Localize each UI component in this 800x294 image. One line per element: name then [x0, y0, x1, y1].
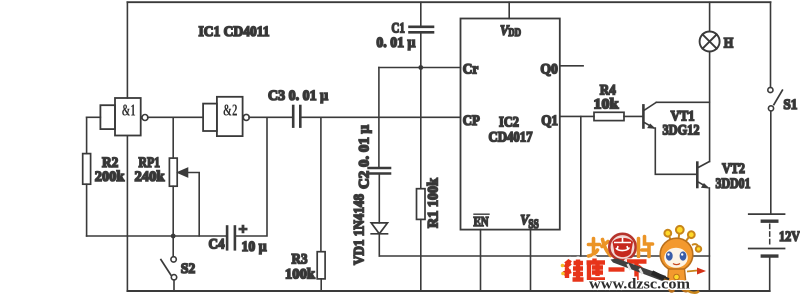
- wire C2 to VD1: [378, 174, 380, 223]
- wire EN lead to bottom border: [480, 230, 482, 291]
- wire R1 bottom lead to bottom border: [420, 219, 422, 291]
- wire VDD lead: [508, 2, 510, 18]
- wire lamp bottom lead to VT2 collector: [709, 52, 711, 162]
- resistor R1: [417, 189, 426, 220]
- wire RP1 bottom lead: [172, 186, 174, 236]
- wire S2 upper lead: [172, 236, 174, 257]
- svg-text:DD: DD: [508, 25, 521, 39]
- svg-text:R3: R3: [292, 252, 308, 268]
- watermark yellow dots: [561, 264, 565, 268]
- watermark mascot antennae: [664, 226, 701, 252]
- wire R4 to VT1 base: [624, 115, 642, 117]
- wire bottom border: [127, 290, 769, 292]
- ground rail (VD1 to VT2 emitter): [379, 255, 709, 257]
- wire feedback rail: [87, 235, 227, 237]
- svg-text:0. 01 μ: 0. 01 μ: [376, 35, 415, 51]
- svg-text:100k: 100k: [285, 266, 316, 282]
- watermark mascot head: [660, 238, 693, 271]
- wire R2 bottom lead: [86, 184, 88, 236]
- wire R2 top lead: [86, 117, 88, 153]
- resistor R2: [83, 154, 91, 185]
- svg-text:Q1: Q1: [541, 113, 558, 129]
- wire R3 top lead: [320, 117, 322, 251]
- svg-text:CP: CP: [463, 113, 480, 129]
- wire RP1 top lead: [172, 117, 174, 158]
- watermark mascot pen: [611, 259, 675, 285]
- svg-text:200k: 200k: [95, 169, 125, 185]
- wire VT1 emitter down and to VT2 base: [655, 128, 697, 174]
- wire U1a input left: [87, 116, 101, 118]
- junction dot C1/Cr: [418, 65, 423, 70]
- watermark mascot body: [667, 269, 686, 286]
- svg-text:240k: 240k: [135, 169, 166, 185]
- svg-text:EN: EN: [474, 215, 489, 230]
- watermark dzsc.com: [561, 226, 706, 293]
- svg-text:C3 0. 01 μ: C3 0. 01 μ: [268, 88, 328, 104]
- svg-text:3DG12: 3DG12: [663, 123, 700, 139]
- resistor R4: [594, 112, 624, 120]
- transistor VT1 (3DG12): [643, 102, 656, 129]
- svg-text:+: +: [239, 222, 248, 238]
- svg-text:S1: S1: [783, 97, 797, 113]
- wire C3 to IC2 CP: [300, 116, 460, 118]
- wire C1 bottom lead: [420, 32, 422, 67]
- svg-text:IC1 CD4011: IC1 CD4011: [199, 24, 270, 40]
- wire battery bottom lead: [769, 256, 771, 291]
- NAND gate U1b (&2): [203, 97, 249, 136]
- svg-text:&2: &2: [223, 100, 238, 119]
- svg-text:H: H: [724, 36, 734, 52]
- svg-text:C2 0. 01 μ: C2 0. 01 μ: [357, 125, 373, 189]
- switch S2: [161, 257, 177, 280]
- svg-text:Q0: Q0: [540, 62, 558, 78]
- watermark mascot hand dart: [687, 268, 706, 275]
- wire U1b output to C3: [249, 116, 293, 118]
- svg-text:&1: &1: [122, 100, 136, 119]
- svg-text:VT2: VT2: [722, 161, 745, 177]
- wire C4 right lead up to U1b output: [235, 117, 267, 236]
- wire VT1 collector to lamp line: [656, 101, 709, 103]
- watermark char 找 (orange): [589, 239, 611, 257]
- watermark red text 维库一下: [564, 259, 647, 282]
- switch S1: [768, 87, 783, 111]
- svg-text:S2: S2: [181, 261, 196, 277]
- wire VSS lead to bottom border: [530, 230, 532, 291]
- wire left border lower (gate U1a bottom to bottom border): [126, 137, 128, 292]
- svg-text:12V: 12V: [779, 229, 800, 245]
- watermark mascot legs: [669, 287, 688, 291]
- resistor R3: [317, 252, 325, 279]
- svg-text:10 μ: 10 μ: [242, 239, 267, 255]
- capacitor C1: [410, 27, 434, 33]
- diode VD1: [371, 223, 387, 234]
- svg-text:C4: C4: [209, 237, 225, 253]
- IC U2 (IC2 CD4017) box: [461, 19, 560, 230]
- svg-text:R1 100k: R1 100k: [426, 177, 442, 228]
- wire Cr node: corner down through CP wire to C2: [378, 68, 380, 169]
- wire S2 lower lead: [173, 280, 175, 291]
- wire S1 top lead: [770, 2, 772, 87]
- svg-text:www.dzsc.com: www.dzsc.com: [589, 277, 690, 293]
- wire R1 top lead (from Cr dot through CP wire): [420, 68, 422, 189]
- capacitor C1 top lead from supply rail: [420, 2, 422, 26]
- svg-text:CD4017: CD4017: [489, 129, 533, 145]
- wire left border upper (into gate U1a top): [126, 2, 128, 98]
- wire Q1 branch down to ground rail: [580, 116, 582, 256]
- svg-text:Cr: Cr: [463, 62, 479, 78]
- wire Cr horizontal to IC2: [379, 67, 461, 69]
- junction dot RP1/rail: [171, 234, 176, 239]
- wire U1a output to U1b input: [148, 116, 203, 118]
- wire R3 bottom lead: [320, 279, 322, 291]
- wire Q0 stub: [560, 65, 583, 67]
- svg-text:10k: 10k: [594, 96, 620, 112]
- wire top border: [127, 1, 770, 3]
- lamp H: [700, 32, 720, 52]
- watermark mascot eyes: [666, 251, 673, 260]
- RP1 wiper arrow: [178, 168, 188, 176]
- potentiometer RP1: [169, 158, 177, 186]
- svg-text:IC2: IC2: [499, 114, 519, 130]
- watermark magnifier lens with 芯: [609, 234, 635, 260]
- capacitor C4: [227, 227, 235, 250]
- watermark char 片 (orange): [639, 237, 653, 257]
- capacitor C3: [293, 106, 300, 127]
- NAND gate U1a (&1): [100, 98, 148, 136]
- svg-text:VD1 1N4148: VD1 1N4148: [352, 194, 368, 265]
- svg-text:3DD01: 3DD01: [716, 176, 751, 192]
- wire lamp top lead: [709, 2, 711, 31]
- wire S1 lower lead to battery: [770, 111, 772, 214]
- wire RP1 wiper lead: [188, 173, 200, 237]
- battery GB 12V: [749, 214, 785, 256]
- wire Q1 to R4: [560, 115, 594, 117]
- capacitor C2: [369, 168, 390, 174]
- transistor VT2 (3DD01): [697, 162, 709, 189]
- wire VD1 cathode to ground rail: [378, 234, 380, 256]
- wire VT2 emitter to bottom border: [708, 188, 710, 291]
